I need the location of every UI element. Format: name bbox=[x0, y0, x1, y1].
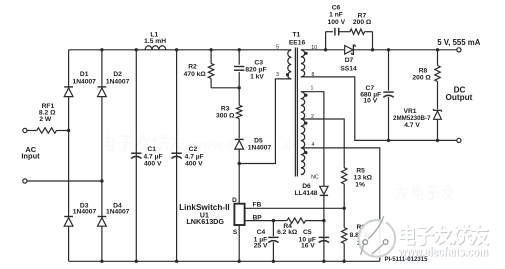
node VR1 bottom junction bbox=[436, 139, 439, 142]
svg-text:D2: D2 bbox=[113, 71, 122, 78]
wire snubber right leg bbox=[372, 32, 374, 50]
wire AC line 1 bbox=[27, 130, 37, 132]
wire C2 branch bbox=[176, 50, 178, 261]
node C1 bottom junction bbox=[135, 260, 138, 263]
node C4 bottom junction bbox=[272, 260, 275, 263]
resistor R3 bbox=[238, 88, 240, 105]
phase dot secondary bbox=[305, 52, 308, 55]
transformer bias winding (4-NC) bbox=[301, 148, 305, 155]
svg-text:1 nF: 1 nF bbox=[329, 12, 343, 19]
wire C1 branch bbox=[135, 50, 137, 261]
capacitor C7 bbox=[388, 50, 390, 91]
svg-text:3: 3 bbox=[276, 72, 279, 78]
svg-text:200 Ω: 200 Ω bbox=[353, 19, 372, 26]
capacitor C3 bbox=[238, 50, 240, 65]
resistor R6 bbox=[343, 208, 345, 227]
node R6 bottom junction bbox=[343, 260, 346, 263]
svg-text:D7: D7 bbox=[345, 57, 354, 64]
svg-text:NC: NC bbox=[311, 174, 319, 180]
svg-text:4.7 V: 4.7 V bbox=[404, 122, 420, 129]
svg-text:EE16: EE16 bbox=[289, 40, 306, 47]
wire BP to R4 bbox=[273, 220, 287, 222]
svg-text:C3: C3 bbox=[254, 60, 263, 67]
diode D7 SS14 bbox=[345, 46, 353, 55]
svg-text:820 pF: 820 pF bbox=[245, 67, 266, 74]
svg-text:2MM5230B-7: 2MM5230B-7 bbox=[393, 115, 431, 122]
terminal DC output + bbox=[457, 48, 461, 52]
wire pin2 to R5 bbox=[301, 119, 344, 168]
svg-text:10: 10 bbox=[311, 45, 317, 51]
wire BP line left bbox=[245, 220, 274, 222]
svg-text:6.2 kΩ: 6.2 kΩ bbox=[277, 229, 298, 236]
node R2 top junction bbox=[209, 48, 212, 51]
node R8 top junction bbox=[436, 48, 439, 51]
terminal AC line 2 bbox=[23, 179, 27, 183]
svg-text:1N4007: 1N4007 bbox=[72, 78, 96, 85]
svg-text:Output: Output bbox=[445, 93, 472, 102]
wire AC line 2 bbox=[27, 180, 102, 182]
node C2 top junction bbox=[175, 48, 178, 51]
capacitor C5 bbox=[319, 236, 329, 238]
node FB divider junction bbox=[343, 207, 346, 210]
svg-text:LNK613DG: LNK613DG bbox=[186, 217, 224, 226]
wire R4 to C5 node bbox=[306, 220, 324, 222]
svg-text:4: 4 bbox=[312, 142, 315, 148]
watermark logo bbox=[359, 220, 396, 257]
transformer core bbox=[294, 48, 296, 177]
capacitor C4 bbox=[272, 221, 274, 237]
svg-text:D6: D6 bbox=[302, 183, 311, 190]
svg-text:1: 1 bbox=[311, 86, 314, 92]
wire D7 to output terminal bbox=[353, 49, 456, 51]
node C4 junction bbox=[272, 219, 275, 222]
wire top rail bbox=[69, 49, 292, 51]
node D2 top rail junction bbox=[100, 48, 103, 51]
wire snubber top right bbox=[365, 31, 373, 33]
node C1 top junction bbox=[135, 48, 138, 51]
svg-text:1 kV: 1 kV bbox=[250, 74, 264, 81]
phase dot bias 2 bbox=[304, 122, 307, 125]
wire C6 to R7 bbox=[339, 31, 350, 33]
resistor R4 bbox=[287, 218, 306, 223]
wire bottom rail bbox=[69, 260, 380, 262]
svg-text:FB: FB bbox=[253, 201, 262, 208]
op-amp U1 LNK613DG body bbox=[234, 204, 244, 225]
faint tiled watermark bbox=[102, 134, 184, 151]
wire NC stub bbox=[301, 174, 304, 176]
phase dot bias 1 bbox=[304, 94, 307, 97]
wire D6 to BP node bbox=[323, 195, 325, 220]
node clamp junction bbox=[238, 86, 241, 89]
node snubber left junction bbox=[324, 48, 327, 51]
svg-text:1N4007: 1N4007 bbox=[106, 209, 130, 216]
diode D4 1N4007 bbox=[98, 216, 107, 218]
capacitor C6 bbox=[334, 28, 336, 36]
svg-text:2 W: 2 W bbox=[39, 116, 52, 123]
node C2 bottom junction bbox=[175, 260, 178, 263]
node C7 bottom junction bbox=[387, 139, 390, 142]
svg-text:13 kΩ: 13 kΩ bbox=[354, 174, 373, 181]
svg-text:400 V: 400 V bbox=[185, 160, 203, 167]
wire pin1 to D6 bbox=[301, 92, 324, 187]
svg-text:LinkSwitch-II: LinkSwitch-II bbox=[179, 203, 230, 212]
svg-text:R8: R8 bbox=[419, 68, 428, 75]
diode D2 1N4007 bbox=[98, 86, 107, 88]
transformer T1 primary winding bbox=[288, 50, 292, 57]
diode D6 LL4148 bbox=[320, 194, 328, 196]
wire pin10 to D7 bbox=[301, 49, 345, 51]
svg-text:D1: D1 bbox=[80, 71, 89, 78]
svg-text:200 Ω: 200 Ω bbox=[412, 75, 431, 82]
svg-text:10 V: 10 V bbox=[363, 98, 377, 105]
wire primary return (pin 3) bbox=[239, 79, 291, 164]
wire FB line bbox=[245, 207, 345, 209]
resistor R2 bbox=[210, 50, 212, 64]
svg-text:1.5 mH: 1.5 mH bbox=[144, 38, 166, 45]
diode D5 1N4007 bbox=[235, 138, 244, 140]
svg-text:PI-5111-012315: PI-5111-012315 bbox=[385, 256, 429, 263]
inductor L1 bbox=[145, 46, 152, 50]
wire left vertical (D1/D3 branch) bbox=[68, 50, 70, 261]
transformer secondary winding (10-8) bbox=[301, 50, 305, 57]
watermark text bbox=[400, 225, 488, 245]
wire snubber top left bbox=[326, 31, 333, 33]
svg-text:400 V: 400 V bbox=[144, 160, 162, 167]
terminal DC output - bbox=[457, 138, 461, 142]
zener VR1 2MMS230B-7 bbox=[433, 109, 441, 112]
svg-text:D: D bbox=[232, 197, 237, 204]
node drain junction bbox=[238, 162, 241, 165]
phase dot primary bbox=[286, 73, 289, 76]
transformer bias winding (2-4) bbox=[301, 119, 305, 126]
svg-text:S: S bbox=[233, 229, 238, 236]
node snubber right junction bbox=[371, 48, 374, 51]
wire VR1 to return bbox=[437, 119, 439, 140]
resistor R8 bbox=[437, 50, 439, 66]
svg-text:1%: 1% bbox=[355, 181, 365, 188]
svg-text:5 V, 555 mA: 5 V, 555 mA bbox=[437, 38, 480, 47]
svg-text:R3: R3 bbox=[221, 105, 230, 112]
wire pin4 to ground bbox=[301, 148, 380, 261]
transformer bias winding (1-2) bbox=[301, 92, 305, 99]
diode D1 1N4007 bbox=[64, 86, 73, 88]
wire D2/D4 branch bbox=[101, 50, 103, 261]
svg-text:2: 2 bbox=[311, 114, 314, 120]
svg-text:5: 5 bbox=[276, 44, 279, 50]
node D6/C5 junction bbox=[322, 219, 325, 222]
svg-text:C5: C5 bbox=[303, 229, 312, 236]
wire RF1 to bridge bbox=[57, 130, 69, 132]
svg-text:470 kΩ: 470 kΩ bbox=[184, 71, 207, 78]
svg-text:T1: T1 bbox=[292, 32, 300, 39]
wire pin8 return bbox=[301, 77, 457, 140]
wire C5 branch bbox=[323, 221, 325, 262]
svg-text:16 V: 16 V bbox=[301, 242, 315, 249]
capacitor C2 bbox=[171, 152, 181, 154]
svg-text:25 V: 25 V bbox=[254, 242, 268, 249]
wire snubber left leg bbox=[325, 32, 327, 50]
svg-text:1N4007: 1N4007 bbox=[73, 209, 97, 216]
diode D3 1N4007 bbox=[64, 216, 73, 218]
svg-text:100 V: 100 V bbox=[328, 19, 346, 26]
svg-text:8: 8 bbox=[312, 72, 315, 78]
wire U1 source to ground bbox=[238, 225, 240, 261]
svg-text:300 Ω: 300 Ω bbox=[216, 112, 235, 119]
node AC1 junction bbox=[67, 129, 70, 132]
resistor R5 bbox=[342, 168, 347, 184]
svg-text:R5: R5 bbox=[356, 167, 365, 174]
terminal AC line 1 bbox=[23, 128, 27, 132]
svg-text:BP: BP bbox=[253, 215, 263, 222]
capacitor C1 bbox=[131, 152, 141, 154]
svg-text:SS14: SS14 bbox=[340, 65, 357, 72]
svg-text:C4: C4 bbox=[257, 229, 266, 236]
wire R2-C3 bottom bbox=[211, 87, 239, 89]
node C3 top junction bbox=[238, 48, 241, 51]
svg-text:LL4148: LL4148 bbox=[294, 190, 317, 197]
node AC2 junction bbox=[100, 179, 103, 182]
wire D5 to drain node bbox=[238, 149, 240, 204]
svg-text:1N4007: 1N4007 bbox=[106, 78, 130, 85]
node S bottom junction bbox=[238, 260, 241, 263]
resistor R7 bbox=[350, 29, 365, 34]
svg-text:R2: R2 bbox=[188, 63, 197, 70]
svg-text:www.elecfans.com: www.elecfans.com bbox=[191, 138, 311, 152]
node D4 bottom rail junction bbox=[100, 260, 103, 263]
svg-text:Input: Input bbox=[21, 152, 40, 161]
phase dot bias 3 bbox=[304, 151, 307, 154]
node C7 top junction bbox=[387, 48, 390, 51]
node C5 bottom junction bbox=[322, 260, 325, 263]
resistor RF1 bbox=[37, 128, 57, 133]
